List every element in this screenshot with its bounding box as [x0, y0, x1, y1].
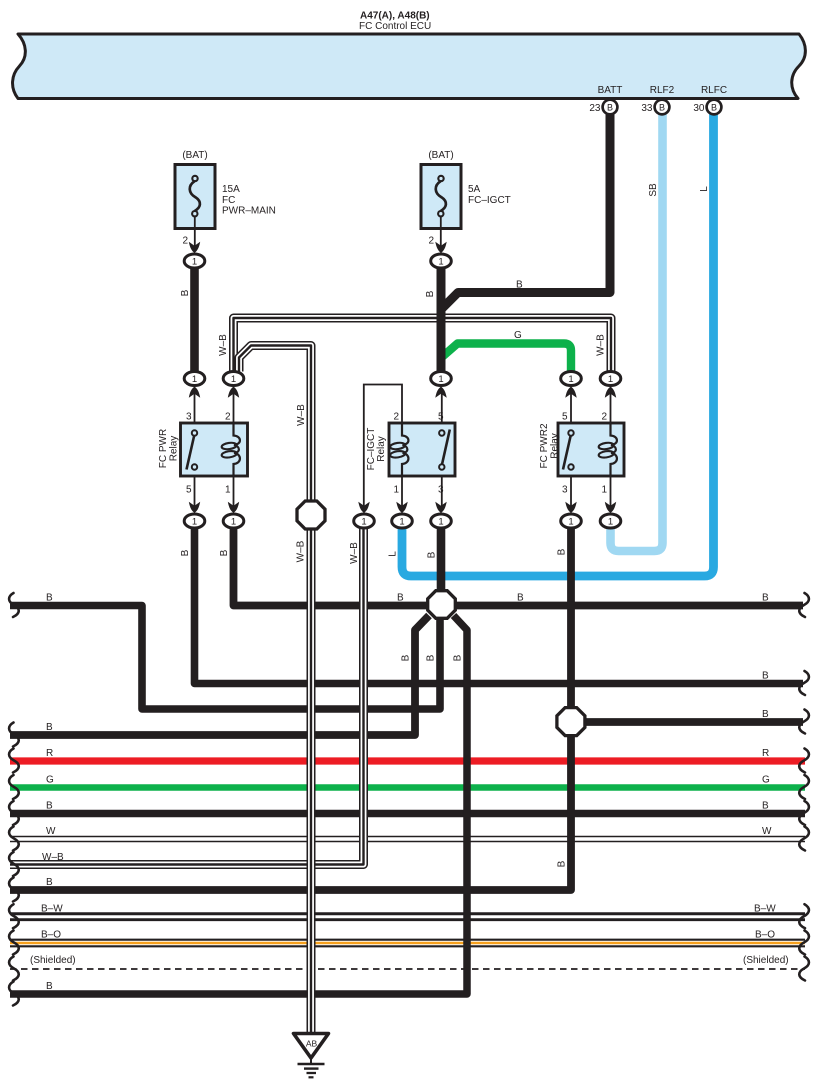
svg-text:B–W: B–W [41, 904, 63, 915]
break symbol left y994 [9, 982, 19, 1006]
svg-text:FC Control ECU: FC Control ECU [359, 21, 431, 32]
relay FC PWR [158, 412, 248, 496]
junction octagon (571,722) [557, 708, 585, 736]
label L wire [699, 186, 710, 192]
svg-text:W–B: W–B [42, 852, 64, 863]
wire W-B ground wire to AB [239, 346, 311, 1034]
label B bus2 right [762, 671, 769, 682]
svg-text:Relay: Relay [169, 436, 180, 462]
label ECU title [359, 11, 431, 33]
wire bus B y814 (full width) [10, 810, 805, 817]
label B bus3 left [46, 722, 53, 733]
pin line FC-IGCT pin1 [401, 476, 403, 508]
label B below PWR2 pin3 [557, 548, 568, 555]
break symbol left y890 [9, 878, 19, 902]
connector 1 fuse output x194.5 [184, 254, 205, 268]
label B bus4 right [762, 801, 769, 812]
svg-text:3: 3 [186, 412, 192, 423]
svg-text:W: W [762, 826, 772, 837]
svg-text:W–B: W–B [349, 542, 360, 564]
pin line FC-IGCT pin3 [441, 476, 443, 508]
break symbol right y683.5 [799, 671, 809, 695]
break symbol left y839 [9, 827, 19, 851]
svg-text:FC PWR2: FC PWR2 [539, 423, 550, 468]
fuse 5A FC-IGCT [421, 150, 511, 250]
label B octagon branch right [453, 654, 464, 661]
pin line FC PWR2 pin2 [610, 391, 612, 423]
label G left [46, 775, 54, 786]
svg-text:A47(A), A48(B): A47(A), A48(B) [360, 11, 430, 22]
svg-text:Relay: Relay [376, 436, 387, 462]
svg-text:15A: 15A [222, 184, 240, 195]
svg-text:B: B [426, 654, 437, 661]
svg-text:(Shielded): (Shielded) [30, 955, 76, 966]
svg-text:B: B [762, 671, 769, 682]
svg-text:B: B [557, 548, 568, 555]
connector 1 relay top x194.5 [184, 372, 205, 386]
svg-text:2: 2 [225, 412, 231, 423]
svg-text:B–O: B–O [755, 930, 775, 941]
wire B fuse1 to FC PWR pin3 [190, 266, 199, 372]
svg-text:B: B [180, 289, 191, 296]
connector 1 relay bottom x571 [561, 514, 582, 528]
svg-text:1: 1 [568, 374, 573, 385]
svg-text:1: 1 [192, 516, 197, 527]
svg-text:B: B [219, 549, 230, 556]
label Shielded left [30, 955, 76, 966]
svg-text:W–B: W–B [596, 334, 607, 356]
pin line FC-IGCT pin2 loop [364, 385, 402, 509]
svg-text:FC–IGCT: FC–IGCT [468, 195, 511, 206]
fuse 15A FC PWR-MAIN [175, 150, 276, 250]
connector 1 relay bottom x402 [392, 514, 413, 528]
wire SB RLF2 to FC PWR2 pin1 [611, 114, 663, 551]
svg-text:B: B [46, 593, 53, 604]
ECU pin 33 RLF2 [641, 85, 674, 114]
svg-text:1: 1 [192, 256, 197, 267]
label W left [46, 826, 56, 837]
break symbol left y916.7 [9, 904, 19, 928]
svg-text:B: B [762, 801, 769, 812]
svg-text:AB: AB [306, 1039, 318, 1049]
arrow into top connector x233.5 [228, 387, 239, 398]
pin line FC PWR2 pin5 [570, 391, 572, 423]
wire W-B FC PWR pin2 to FC PWR2 pin2 [234, 318, 612, 372]
ECU pin 30 RLFC [693, 85, 727, 114]
svg-text:B: B [180, 549, 191, 556]
wire bus B-W (full width) [10, 912, 805, 921]
break symbol right y787.5 [799, 775, 809, 799]
break symbol right y605.5 [799, 593, 809, 617]
label B bus1 mid2 [517, 593, 524, 604]
label B-W left [41, 904, 63, 915]
label B bus1 right [762, 593, 769, 604]
label B on BATT feed [516, 280, 523, 291]
junction octagon (441,604) [428, 591, 456, 619]
wire B FC PWR2 pin3 through junction2 to bus7 [10, 527, 571, 890]
label B-O left [41, 930, 61, 941]
svg-text:23: 23 [589, 103, 601, 114]
svg-text:B: B [516, 280, 523, 291]
svg-text:B: B [557, 860, 568, 867]
svg-text:B: B [425, 290, 436, 297]
svg-text:2: 2 [182, 236, 188, 247]
label B bus1 mid1 [397, 593, 404, 604]
svg-text:W–B: W–B [296, 540, 307, 562]
arrow into bottom connector x233.5 [228, 502, 239, 513]
svg-text:RLF2: RLF2 [650, 85, 675, 96]
svg-text:(BAT): (BAT) [428, 150, 453, 161]
svg-text:L: L [699, 186, 710, 192]
label B octagon branch left [401, 654, 412, 661]
wire B junction2 to right edge [571, 718, 803, 726]
svg-text:B: B [46, 981, 53, 992]
arrow into top connector x571 [565, 387, 576, 398]
FC Control ECU band A47(A) A48(B) [13, 34, 806, 99]
pin line FC PWR2 pin1 [610, 476, 612, 508]
pin line FC PWR pin5 [194, 476, 196, 508]
svg-text:L: L [388, 551, 399, 557]
label Shielded right [743, 955, 789, 966]
svg-text:PWR–MAIN: PWR–MAIN [222, 206, 276, 217]
connector 1 relay top x571 [561, 372, 582, 386]
label W-B below IGCT pin2 [349, 542, 360, 564]
wire B bus11 + octagon right branch [10, 616, 467, 995]
relay FC PWR2 [539, 412, 624, 496]
svg-text:FC PWR: FC PWR [158, 429, 169, 468]
label B fuse1 wire [180, 289, 191, 296]
svg-text:B: B [401, 654, 412, 661]
connector 1 relay bottom x194.5 [184, 514, 205, 528]
label B-O right [755, 930, 775, 941]
label L below IGCT pin1 [388, 551, 399, 557]
label B bus7 left [46, 877, 53, 888]
wire B FC-IGCT pin3 to junction [437, 527, 446, 604]
connector 1 relay bottom x364 [354, 514, 375, 528]
svg-text:1: 1 [192, 374, 197, 385]
label B below IGCT pin3 [427, 551, 438, 558]
break symbol right y969 [799, 957, 809, 981]
svg-text:2: 2 [393, 412, 399, 423]
connector 1 relay top x610.5 [600, 372, 621, 386]
break symbol left y864.5 [9, 852, 19, 876]
pin line FC-IGCT pin5 [441, 391, 443, 423]
label R left [46, 748, 53, 759]
label B bus j2 right [762, 709, 769, 720]
svg-text:W: W [46, 826, 56, 837]
break symbol left y761 [9, 749, 19, 773]
wire bus R (full width) [10, 757, 805, 764]
svg-text:1: 1 [231, 374, 236, 385]
svg-text:1: 1 [608, 516, 613, 527]
break symbol right y761 [799, 749, 809, 773]
pin line FC PWR2 pin3 [570, 476, 572, 508]
svg-text:G: G [46, 775, 54, 786]
wire W-B FC-IGCT pin2 connector to left bus [10, 527, 364, 865]
svg-text:2: 2 [428, 236, 434, 247]
svg-text:G: G [514, 330, 522, 341]
relay FC-IGCT [366, 412, 455, 496]
label G right [762, 775, 770, 786]
connector 1 relay top x441 [431, 372, 452, 386]
arrow into fuse connector x441 [435, 242, 446, 253]
svg-text:1: 1 [438, 256, 443, 267]
svg-text:1: 1 [393, 485, 399, 496]
svg-text:5: 5 [186, 485, 192, 496]
break symbol right y943 [799, 931, 809, 955]
label W-B left relay wire [218, 334, 229, 356]
svg-text:5A: 5A [468, 184, 481, 195]
svg-text:B: B [659, 103, 665, 113]
svg-text:1: 1 [438, 516, 443, 527]
svg-text:SB: SB [648, 183, 659, 197]
svg-text:B: B [762, 593, 769, 604]
svg-text:2: 2 [601, 412, 607, 423]
arrow into bottom connector x610.5 [605, 502, 616, 513]
svg-text:Relay: Relay [550, 433, 561, 459]
svg-text:1: 1 [601, 485, 607, 496]
label W right [762, 826, 772, 837]
arrow into bottom connector x364 [358, 502, 369, 513]
label G on green wire [514, 330, 522, 341]
connector 1 relay bottom x233.5 [223, 514, 244, 528]
svg-text:G: G [762, 775, 770, 786]
pin line FC PWR pin2 [233, 391, 235, 423]
arrow into fuse connector x194.5 [189, 242, 200, 253]
label B bus11 left [46, 981, 53, 992]
label W-B bus left [42, 852, 64, 863]
arrow into top connector x194.5 [189, 387, 200, 398]
svg-text:B–O: B–O [41, 930, 61, 941]
wire B fuse2 to FC-IGCT pin5 [437, 266, 446, 372]
pin line FC PWR pin1 [233, 476, 235, 508]
arrow into bottom connector x441 [435, 502, 446, 513]
svg-text:1: 1 [438, 374, 443, 385]
label W-B ground wire upper [296, 404, 307, 426]
svg-text:B: B [453, 654, 464, 661]
svg-text:33: 33 [641, 103, 653, 114]
svg-text:1: 1 [231, 516, 236, 527]
svg-text:W–B: W–B [218, 334, 229, 356]
wire B FC PWR pin1 to bus1 right [234, 527, 804, 606]
arrow into bottom connector x571 [565, 502, 576, 513]
svg-text:BATT: BATT [598, 85, 623, 96]
break symbol right y722 [799, 710, 809, 734]
arrow into bottom connector x402 [396, 502, 407, 513]
arrow into bottom connector x194.5 [189, 502, 200, 513]
wire bus (Shielded) dashed [10, 968, 805, 970]
svg-text:R: R [46, 748, 53, 759]
svg-text:RLFC: RLFC [701, 85, 727, 96]
arrow into top connector x441 [435, 387, 446, 398]
label SB wire [648, 183, 659, 197]
label B fuse2 wire [425, 290, 436, 297]
svg-text:B: B [762, 709, 769, 720]
break symbol left y943 [9, 931, 19, 955]
svg-text:1: 1 [361, 516, 366, 527]
svg-text:1: 1 [225, 485, 231, 496]
junction octagon W-B (311,515) [297, 501, 325, 529]
wire bus G (full width) [10, 784, 805, 791]
label B bus1 left [46, 593, 53, 604]
arrow into top connector x610.5 [605, 387, 616, 398]
label B bus4 left [46, 801, 53, 812]
svg-text:30: 30 [693, 103, 705, 114]
label B below FC PWR pin1 [219, 549, 230, 556]
break symbol right y916.7 [799, 904, 809, 928]
svg-text:5: 5 [562, 412, 568, 423]
label W-B below octagon [296, 540, 307, 562]
svg-text:B: B [517, 593, 524, 604]
svg-text:1: 1 [608, 374, 613, 385]
break symbol right y813.5 [799, 801, 809, 825]
break symbol left y735 [9, 723, 19, 747]
ground AB [294, 1034, 329, 1078]
break symbol left y787.5 [9, 775, 19, 799]
svg-text:B: B [46, 877, 53, 888]
svg-text:B–W: B–W [754, 904, 776, 915]
svg-text:1: 1 [399, 516, 404, 527]
svg-text:B: B [46, 722, 53, 733]
svg-text:B: B [607, 103, 613, 113]
ECU pin 23 BATT [589, 85, 622, 114]
break symbol left y969 [9, 957, 19, 981]
svg-text:FC: FC [222, 195, 235, 206]
wire bus B-O (full width) [10, 939, 805, 948]
wire G relay feed to FC PWR2 pin5 [442, 344, 571, 372]
svg-text:(BAT): (BAT) [182, 150, 207, 161]
wire bus W (full width) [10, 836, 805, 843]
label B PWR2 wire lower [557, 860, 568, 867]
label W-B right relay wire [596, 334, 607, 356]
wire L RLFC to FC-IGCT pin1 [402, 114, 714, 576]
wire B bus1 left + link + octagon mid branch [10, 604, 440, 709]
wire B BATT to fuse output [442, 114, 611, 309]
connector 1 relay bottom x441 [431, 514, 452, 528]
svg-text:R: R [762, 748, 769, 759]
label R right [762, 748, 769, 759]
label B octagon branch mid [426, 654, 437, 661]
svg-text:(Shielded): (Shielded) [743, 955, 789, 966]
svg-text:1: 1 [568, 516, 573, 527]
label B-W right [754, 904, 776, 915]
connector 1 fuse output x441 [431, 254, 452, 268]
break symbol right y839 [799, 827, 809, 851]
pin line FC PWR pin3 [194, 391, 196, 423]
svg-text:B: B [46, 801, 53, 812]
wire B FC PWR pin5 to bus2 right [195, 527, 804, 684]
svg-text:B: B [711, 103, 717, 113]
wire B bus3 left + octagon left branch [10, 616, 429, 736]
svg-text:3: 3 [562, 485, 568, 496]
svg-text:W–B: W–B [296, 404, 307, 426]
connector 1 relay bottom x610.5 [600, 514, 621, 528]
label B below FC PWR pin5 [180, 549, 191, 556]
svg-text:B: B [427, 551, 438, 558]
break symbol left y605.5 [9, 593, 19, 617]
svg-text:B: B [397, 593, 404, 604]
break symbol left y813.5 [9, 801, 19, 825]
connector 1 relay top x233.5 [223, 372, 244, 386]
